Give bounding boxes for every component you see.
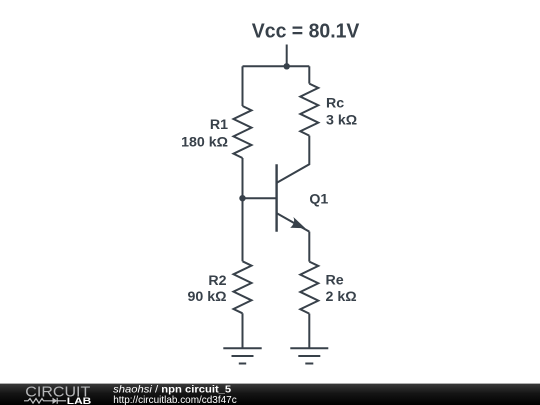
svg-text:Q1: Q1 [309,192,328,208]
resistor Re [300,262,318,314]
resistor Rc [300,84,318,136]
wire rail to Rc [308,66,310,83]
wire Re to ground [308,314,310,348]
resistor R1 [234,106,252,158]
footer bar [0,384,540,405]
wire base [243,197,277,199]
resistor R2 [234,261,252,313]
svg-text:Vcc = 80.1V: Vcc = 80.1V [252,21,360,43]
svg-text:http://circuitlab.com/cd3f47c: http://circuitlab.com/cd3f47c [113,394,237,405]
svg-text:180 kΩ: 180 kΩ [181,134,228,150]
transistor Q1 emitter arrow [290,217,305,228]
svg-text:Rc: Rc [326,95,344,111]
wire R2 to ground [242,313,244,348]
node Vcc junction [284,63,290,69]
logo diode triangle [53,398,58,404]
wire rail to R1 [242,66,244,106]
node base junction [239,195,245,201]
wire emitter to Re [308,232,310,262]
transistor Q1 bar [275,164,277,231]
logo resistor-diode glyph [24,398,66,404]
svg-text:R2: R2 [208,273,226,289]
svg-text:90 kΩ: 90 kΩ [188,289,227,305]
wire Vcc tap [286,45,288,67]
svg-text:2 kΩ: 2 kΩ [326,289,357,305]
svg-text:3 kΩ: 3 kΩ [326,113,357,129]
ground right [290,348,328,363]
wire Rc to collector [277,136,310,183]
svg-text:R1: R1 [210,117,228,133]
svg-text:LAB: LAB [67,396,92,405]
transistor Q1 emitter [277,213,310,232]
ground left [223,348,261,363]
wire top rail [243,65,310,67]
wire R1 to R2 (base column) [242,158,244,261]
svg-text:Re: Re [326,272,344,288]
